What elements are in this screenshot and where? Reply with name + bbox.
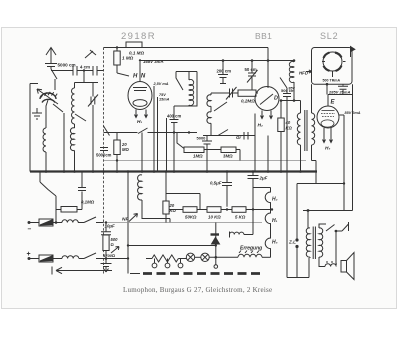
svg-text:400 cm: 400 cm xyxy=(167,114,181,119)
svg-text:H₃: H₃ xyxy=(325,146,330,152)
svg-text:0,1MΩ: 0,1MΩ xyxy=(81,200,95,205)
svg-text:85V 2mA: 85V 2mA xyxy=(345,111,361,115)
svg-text:BB1: BB1 xyxy=(255,31,272,41)
svg-text:1 MΩ: 1 MΩ xyxy=(122,56,134,61)
svg-text:10 KΩ: 10 KΩ xyxy=(208,215,221,220)
svg-text:85V: 85V xyxy=(289,87,296,91)
svg-text:200 cm: 200 cm xyxy=(217,69,232,74)
svg-text:H₂: H₂ xyxy=(258,123,263,129)
svg-text:50 cm: 50 cm xyxy=(245,67,257,72)
svg-text:Gr: Gr xyxy=(236,135,241,140)
svg-text:KΩ: KΩ xyxy=(286,126,293,131)
svg-text:40: 40 xyxy=(285,120,291,125)
svg-text:Ω: Ω xyxy=(111,242,114,247)
svg-text:1MΩ: 1MΩ xyxy=(193,154,203,159)
svg-text:+: + xyxy=(27,251,31,258)
svg-text:285V 25mA: 285V 25mA xyxy=(328,90,350,95)
svg-text:NF: NF xyxy=(122,217,129,223)
svg-text:−: − xyxy=(28,226,32,233)
svg-text:2μF: 2μF xyxy=(259,176,268,181)
svg-text:5 KΩ: 5 KΩ xyxy=(235,215,246,220)
svg-text:3MΩ: 3MΩ xyxy=(223,154,233,159)
svg-text:KΩ: KΩ xyxy=(170,208,177,213)
svg-text:2,5V mA: 2,5V mA xyxy=(153,82,169,86)
svg-text:HFD: HFD xyxy=(299,71,309,76)
svg-text:Z.L: Z.L xyxy=(288,240,296,245)
svg-text:15mA: 15mA xyxy=(159,98,170,102)
svg-text:H₁: H₁ xyxy=(272,218,278,224)
svg-text:SL2: SL2 xyxy=(320,31,338,41)
svg-text:0,2MΩ: 0,2MΩ xyxy=(241,99,255,104)
svg-text:10μF: 10μF xyxy=(105,224,116,229)
svg-text:5000 cm: 5000 cm xyxy=(58,63,76,68)
svg-text:H₂: H₂ xyxy=(272,197,278,203)
svg-text:H₃: H₃ xyxy=(272,240,278,246)
svg-text:5000: 5000 xyxy=(197,136,207,141)
svg-text:H₁: H₁ xyxy=(137,119,142,125)
svg-text:2918R: 2918R xyxy=(121,31,156,42)
svg-text:5000cm: 5000cm xyxy=(96,153,112,158)
svg-text:4 cm: 4 cm xyxy=(80,65,90,70)
svg-text:Erregung: Erregung xyxy=(240,246,262,252)
svg-text:0,5μF: 0,5μF xyxy=(210,181,222,186)
svg-text:50KΩ: 50KΩ xyxy=(185,215,197,220)
svg-text:Lumophon, Burgaus G 27, Gleich: Lumophon, Burgaus G 27, Gleichstrom, 2 K… xyxy=(123,286,272,294)
svg-text:4700Ω: 4700Ω xyxy=(102,253,115,258)
svg-text:75V: 75V xyxy=(159,93,166,97)
svg-text:MΩ: MΩ xyxy=(122,147,129,152)
svg-text:165V 3mA: 165V 3mA xyxy=(143,59,164,64)
svg-text:HN: HN xyxy=(133,74,149,80)
svg-text:500 TRmA: 500 TRmA xyxy=(323,79,341,83)
svg-text:D: D xyxy=(274,96,278,102)
